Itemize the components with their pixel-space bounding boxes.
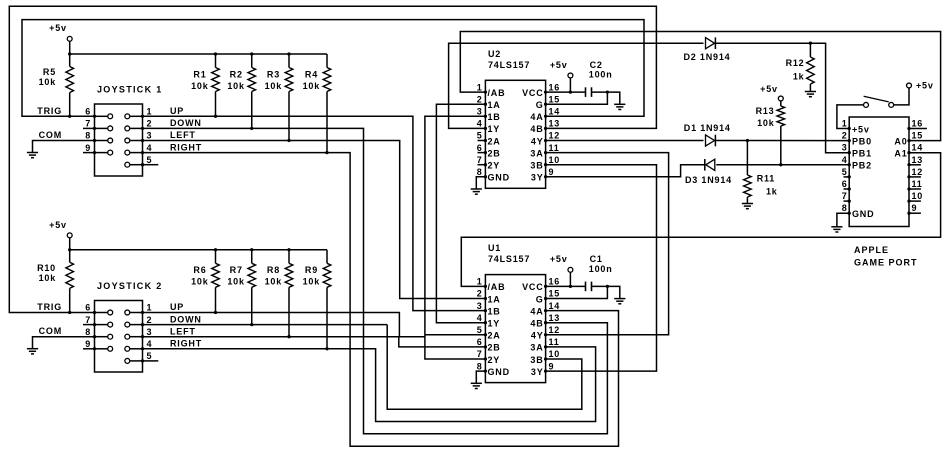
- svg-text:10k: 10k: [191, 277, 209, 287]
- svg-text:+5v: +5v: [550, 60, 568, 70]
- svg-text:D1 1N914: D1 1N914: [684, 123, 731, 133]
- svg-text:GND: GND: [488, 173, 510, 183]
- svg-text:2B: 2B: [488, 148, 501, 158]
- svg-text:6: 6: [85, 303, 91, 313]
- svg-text:7: 7: [85, 119, 91, 129]
- svg-text:5: 5: [147, 351, 153, 361]
- svg-text:15: 15: [912, 131, 924, 141]
- svg-text:7: 7: [842, 191, 848, 201]
- svg-text:R9: R9: [305, 265, 318, 275]
- svg-text:U2: U2: [488, 49, 501, 59]
- svg-text:+5v: +5v: [760, 84, 778, 94]
- svg-text:PB1: PB1: [852, 149, 872, 159]
- svg-text:3A: 3A: [530, 343, 543, 353]
- svg-text:1A: 1A: [488, 294, 501, 304]
- svg-text:10k: 10k: [39, 77, 57, 87]
- svg-text:2Y: 2Y: [488, 355, 501, 365]
- svg-text:10: 10: [549, 349, 561, 359]
- svg-text:/AB: /AB: [488, 88, 506, 98]
- svg-text:9: 9: [85, 339, 91, 349]
- svg-text:C1: C1: [590, 254, 603, 264]
- svg-text:4: 4: [477, 119, 483, 129]
- svg-text:1: 1: [147, 303, 153, 313]
- svg-text:1: 1: [842, 119, 848, 129]
- svg-text:2B: 2B: [488, 343, 501, 353]
- svg-text:3Y: 3Y: [531, 173, 544, 183]
- svg-text:10k: 10k: [265, 277, 283, 287]
- svg-text:R2: R2: [230, 70, 243, 80]
- svg-text:6: 6: [842, 179, 848, 189]
- svg-text:15: 15: [549, 94, 561, 104]
- svg-text:9: 9: [85, 143, 91, 153]
- svg-text:3: 3: [842, 143, 848, 153]
- svg-text:2: 2: [147, 315, 153, 325]
- svg-text:4Y: 4Y: [531, 331, 544, 341]
- svg-text:RIGHT: RIGHT: [170, 339, 202, 349]
- svg-text:TRIG: TRIG: [37, 302, 62, 312]
- svg-text:4: 4: [477, 313, 483, 323]
- svg-text:3A: 3A: [530, 148, 543, 158]
- svg-text:GAME PORT: GAME PORT: [854, 257, 918, 267]
- svg-text:1Y: 1Y: [488, 319, 501, 329]
- svg-text:COM: COM: [39, 130, 62, 140]
- svg-text:11: 11: [549, 337, 560, 347]
- svg-text:4: 4: [147, 143, 153, 153]
- svg-text:D2 1N914: D2 1N914: [684, 52, 731, 62]
- svg-text:12: 12: [549, 131, 561, 141]
- svg-text:LEFT: LEFT: [170, 326, 196, 336]
- svg-text:2Y: 2Y: [488, 161, 501, 171]
- svg-text:JOYSTICK 2: JOYSTICK 2: [97, 281, 163, 291]
- svg-text:14: 14: [549, 107, 561, 117]
- svg-text:8: 8: [477, 167, 483, 177]
- svg-text:10: 10: [549, 155, 561, 165]
- svg-text:VCC: VCC: [522, 282, 543, 292]
- svg-text:R11: R11: [757, 174, 775, 184]
- svg-text:10k: 10k: [757, 118, 775, 128]
- svg-text:10k: 10k: [303, 277, 321, 287]
- svg-text:COM: COM: [39, 326, 62, 336]
- svg-text:R8: R8: [267, 265, 280, 275]
- svg-text:2: 2: [477, 289, 483, 299]
- svg-text:8: 8: [842, 203, 848, 213]
- svg-text:TRIG: TRIG: [37, 106, 62, 116]
- svg-text:7: 7: [477, 349, 483, 359]
- svg-text:100n: 100n: [589, 70, 613, 80]
- svg-text:PB0: PB0: [852, 136, 872, 146]
- svg-text:GND: GND: [852, 209, 874, 219]
- svg-text:+5v: +5v: [852, 124, 870, 134]
- svg-text:LEFT: LEFT: [170, 130, 196, 140]
- svg-text:R7: R7: [230, 265, 243, 275]
- svg-text:U1: U1: [488, 243, 501, 253]
- svg-text:10k: 10k: [39, 273, 57, 283]
- svg-text:74LS157: 74LS157: [488, 60, 530, 70]
- svg-text:1B: 1B: [488, 112, 501, 122]
- svg-text:11: 11: [549, 143, 560, 153]
- svg-text:9: 9: [549, 361, 555, 371]
- svg-text:12: 12: [549, 325, 561, 335]
- svg-text:DOWN: DOWN: [170, 314, 202, 324]
- svg-text:D3 1N914: D3 1N914: [685, 175, 732, 185]
- svg-text:14: 14: [549, 301, 561, 311]
- svg-text:4B: 4B: [530, 319, 543, 329]
- svg-text:1: 1: [477, 82, 483, 92]
- svg-text:3: 3: [147, 131, 153, 141]
- svg-text:1: 1: [477, 277, 483, 287]
- svg-text:5: 5: [477, 131, 483, 141]
- svg-text:4A: 4A: [530, 112, 543, 122]
- svg-text:74LS157: 74LS157: [488, 254, 530, 264]
- svg-text:5: 5: [477, 325, 483, 335]
- svg-text:2: 2: [842, 131, 848, 141]
- svg-text:C2: C2: [590, 60, 603, 70]
- svg-text:5: 5: [147, 155, 153, 165]
- svg-text:15: 15: [549, 289, 561, 299]
- svg-text:8: 8: [85, 131, 91, 141]
- svg-text:R6: R6: [193, 265, 206, 275]
- svg-text:8: 8: [85, 327, 91, 337]
- svg-text:16: 16: [549, 82, 561, 92]
- svg-text:A1: A1: [894, 149, 907, 159]
- svg-text:10k: 10k: [265, 81, 283, 91]
- svg-text:1B: 1B: [488, 306, 501, 316]
- svg-text:7: 7: [477, 155, 483, 165]
- svg-text:7: 7: [85, 315, 91, 325]
- svg-text:10: 10: [912, 191, 924, 201]
- svg-text:4: 4: [842, 155, 848, 165]
- svg-text:UP: UP: [170, 106, 184, 116]
- svg-text:3: 3: [147, 327, 153, 337]
- svg-text:2A: 2A: [488, 331, 501, 341]
- svg-text:8: 8: [477, 361, 483, 371]
- svg-text:1A: 1A: [488, 100, 501, 110]
- svg-text:+5v: +5v: [916, 81, 934, 91]
- svg-text:1k: 1k: [766, 187, 778, 197]
- svg-text:DOWN: DOWN: [170, 118, 202, 128]
- svg-text:R5: R5: [43, 67, 56, 77]
- svg-text:2: 2: [147, 119, 153, 129]
- svg-text:R4: R4: [305, 70, 318, 80]
- svg-text:3Y: 3Y: [531, 367, 544, 377]
- svg-text:A0: A0: [894, 136, 907, 146]
- svg-text:13: 13: [549, 313, 561, 323]
- svg-text:3: 3: [477, 301, 483, 311]
- svg-text:PB2: PB2: [852, 161, 872, 171]
- svg-text:9: 9: [549, 167, 555, 177]
- svg-text:10k: 10k: [191, 81, 209, 91]
- svg-text:11: 11: [912, 179, 923, 189]
- svg-text:4: 4: [147, 339, 153, 349]
- svg-text:GND: GND: [488, 367, 510, 377]
- svg-text:13: 13: [912, 155, 924, 165]
- svg-text:RIGHT: RIGHT: [170, 142, 202, 152]
- svg-text:5: 5: [842, 167, 848, 177]
- svg-text:G: G: [536, 294, 544, 304]
- svg-text:+5v: +5v: [49, 220, 67, 230]
- svg-text:4A: 4A: [530, 306, 543, 316]
- svg-text:6: 6: [85, 107, 91, 117]
- svg-text:3B: 3B: [530, 161, 543, 171]
- svg-text:100n: 100n: [589, 264, 613, 274]
- svg-text:APPLE: APPLE: [854, 245, 889, 255]
- svg-text:R1: R1: [193, 70, 206, 80]
- svg-text:12: 12: [912, 167, 924, 177]
- svg-text:6: 6: [477, 143, 483, 153]
- svg-text:1k: 1k: [793, 71, 805, 81]
- svg-text:9: 9: [912, 203, 918, 213]
- svg-text:4Y: 4Y: [531, 136, 544, 146]
- svg-text:R13: R13: [756, 106, 775, 116]
- svg-text:JOYSTICK 1: JOYSTICK 1: [97, 85, 163, 95]
- svg-text:10k: 10k: [227, 81, 245, 91]
- svg-text:R3: R3: [267, 70, 280, 80]
- svg-text:16: 16: [912, 119, 924, 129]
- svg-text:UP: UP: [170, 302, 184, 312]
- svg-text:R12: R12: [786, 58, 805, 68]
- svg-text:G: G: [536, 100, 544, 110]
- svg-text:14: 14: [912, 143, 924, 153]
- svg-text:R10: R10: [37, 263, 56, 273]
- svg-text:VCC: VCC: [522, 88, 543, 98]
- svg-text:16: 16: [549, 277, 561, 287]
- svg-text:10k: 10k: [227, 277, 245, 287]
- svg-text:2A: 2A: [488, 136, 501, 146]
- svg-text:3B: 3B: [530, 355, 543, 365]
- svg-text:+5v: +5v: [550, 254, 568, 264]
- svg-text:+5v: +5v: [49, 23, 67, 33]
- svg-text:1: 1: [147, 107, 153, 117]
- svg-text:4B: 4B: [530, 124, 543, 134]
- svg-text:2: 2: [477, 94, 483, 104]
- svg-text:1Y: 1Y: [488, 124, 501, 134]
- svg-text:3: 3: [477, 107, 483, 117]
- svg-text:6: 6: [477, 337, 483, 347]
- svg-text:10k: 10k: [303, 81, 321, 91]
- svg-text:13: 13: [549, 119, 561, 129]
- svg-text:/AB: /AB: [488, 282, 506, 292]
